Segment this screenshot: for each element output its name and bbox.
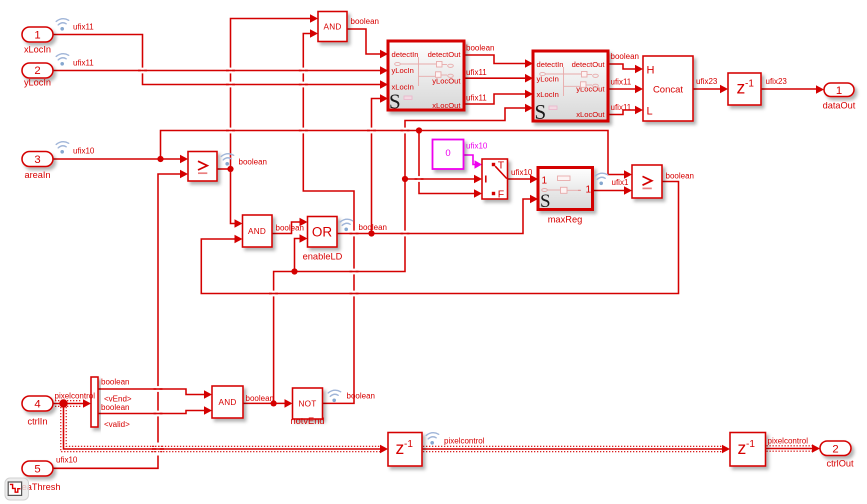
svg-text:detectIn: detectIn [537,60,564,69]
svg-text:1: 1 [34,30,40,42]
outport 1 dataOut [824,83,854,97]
svg-text:-1: -1 [404,439,413,450]
svg-text:<valid>: <valid> [104,420,130,429]
logic gate NOT notvEnd [293,388,323,419]
svg-text:5: 5 [34,464,40,476]
svg-text:Concat: Concat [653,85,683,96]
logic gate OR enableLD [308,217,338,248]
svg-text:boolean: boolean [101,403,129,412]
wire delay Z1 to dataOut port [761,85,824,94]
svg-text:boolean: boolean [246,394,274,403]
node areaIn branch junction [157,156,163,162]
svg-text:ufix23: ufix23 [696,77,718,86]
svg-text:yLocIn: yLocIn [392,66,414,75]
svg-text:notvEnd: notvEnd [290,416,324,426]
comparator GE1 area greater-equal areaThresh [188,152,217,182]
svg-text:boolean: boolean [666,172,694,181]
wire ctrlIn bus branch down to delay Z2 [61,404,388,454]
wifi badge enableLD signal [340,219,353,231]
wire areaIn branch to comparator GE2 top input [161,131,633,179]
node GE1 output junction [227,166,233,172]
svg-text:ufix10: ufix10 [56,456,78,465]
delay Z2 [388,433,422,467]
svg-text:yLocIn: yLocIn [537,75,559,84]
svg-text:boolean: boolean [611,52,639,61]
svg-text:z: z [738,438,747,458]
delay Z3 [730,433,766,467]
wire pixelcontrol bus delay Z3 to ctrlOut port [766,444,821,453]
bus selector [91,377,98,427]
wire AND3 branch to switch control input [405,175,482,184]
node ctrlIn bus junction [59,399,67,407]
subsystem maxReg [538,168,593,210]
delay Z1 [728,73,761,105]
wire switch output to maxReg input [508,175,539,184]
svg-text:boolean: boolean [347,392,375,401]
svg-text:ufix23: ufix23 [766,77,788,86]
wire subsystem2 detectOut to Concat H input [608,64,643,73]
wire areaThresh port5 to comparator GE1 bottom input [53,170,188,469]
wire constant 0 to switch T input [464,155,483,169]
maxReg content preview [542,176,581,193]
sample time legend badge [5,478,29,500]
svg-text:-1: -1 [746,439,755,450]
svg-text:OR: OR [312,225,333,240]
svg-text:boolean: boolean [351,17,379,26]
svg-text:boolean: boolean [276,224,304,233]
svg-text:pixelcontrol: pixelcontrol [55,392,96,401]
wire areaIn port3 to comparator GE1 top input [53,155,188,164]
svg-text:maxReg: maxReg [548,215,583,225]
svg-text:S: S [389,90,401,114]
svg-text:H: H [647,64,655,76]
svg-text:AND: AND [324,23,342,32]
wire bus selector valid output to AND3 bottom input [98,406,212,415]
subsystem2 content preview [540,67,599,110]
wire AND2 output to OR top input [272,218,308,234]
wire subsystem2 xLocOut to Concat L input [608,106,643,115]
wire NOT notvEnd output to AND1 bottom input [303,29,354,403]
wifi badge port3 signal [56,142,68,154]
wire comparator GE1 output net [217,168,231,170]
wifi badge port1 signal [56,19,68,31]
wire bus selector vEnd output to AND3 top input [98,389,212,399]
wire xLocIn port1 to subsystem1 xLocIn pin [53,35,388,89]
svg-text:xLocOut: xLocOut [576,110,605,119]
svg-text:ufix10: ufix10 [511,168,533,177]
svg-text:2: 2 [34,65,40,77]
svg-text:ufix11: ufix11 [73,59,94,68]
node areaIn line junction feeding switch F input [416,127,422,133]
svg-text:pixelcontrol: pixelcontrol [768,437,809,446]
svg-text:ufix1: ufix1 [612,178,629,187]
svg-text:4: 4 [34,399,40,411]
svg-text:ufix11: ufix11 [611,78,632,87]
node AND3 branch junction to OR bottom input [291,268,297,274]
wifi badge GE1 output signal [221,154,234,166]
wire AND1 output to subsystem1 detectIn pin [347,29,388,58]
svg-text:detectOut: detectOut [428,50,462,59]
svg-text:ufix11: ufix11 [73,23,94,32]
svg-text:detectOut: detectOut [572,60,606,69]
svg-text:S: S [535,100,547,124]
svg-text:ufix11: ufix11 [611,103,632,112]
svg-text:NOT: NOT [299,400,317,409]
wire Concat output to delay Z1 [693,85,728,94]
node AND3 branch junction to switch control [402,176,408,182]
svg-text:1: 1 [542,176,548,187]
wire ctrlIn pixelcontrol bus to bus selector [53,399,91,408]
node AND3 output junction [271,400,277,406]
wifi badge maxReg output signal [595,173,608,185]
svg-text:1: 1 [836,85,842,97]
svg-text:boolean: boolean [466,44,494,53]
svg-text:2: 2 [832,443,838,455]
logic gate AND3 [212,386,243,418]
svg-text:dataOut: dataOut [823,100,856,110]
wire crossing hop gaps [138,68,424,456]
svg-text:areaIn: areaIn [24,170,50,180]
svg-text:S: S [540,191,551,212]
inport 2 yLocIn [22,63,53,78]
wire AND3 branch to OR bottom input [295,234,308,271]
svg-text:1: 1 [585,185,591,196]
svg-text:L: L [647,106,653,118]
wire subsystem1 yLocOut to subsystem2 yLocIn [463,74,533,83]
comparator GE2 area greater-equal maxReg [632,165,662,198]
svg-text:ctrlIn: ctrlIn [28,417,48,427]
wire GE1 output up to AND1 top input [231,14,319,169]
wifi badge port2 signal [56,54,68,66]
svg-text:0: 0 [445,148,450,159]
svg-text:xLocIn: xLocIn [537,90,559,99]
switch block [482,159,508,199]
wifi badge Z2 output signal [426,433,439,445]
subsystem1 content preview [395,57,454,100]
inport 3 areaIn [22,152,53,167]
svg-text:xLocOut: xLocOut [432,101,461,110]
svg-text:3: 3 [34,154,40,166]
svg-text:enableLD: enableLD [303,252,343,262]
svg-text:-1: -1 [745,78,754,89]
wire pixelcontrol bus delay Z2 to delay Z3 [422,445,730,454]
wire GE1 output down to AND2 top input [231,169,243,228]
subsystem2 S detect xLoc yLoc [533,51,608,121]
svg-text:z: z [396,438,405,458]
svg-text:AND: AND [219,398,237,407]
wire subsystem2 yLocOut to Concat middle input [608,85,643,94]
constant 0 [433,140,464,170]
wire areaIn branch to switch F input [419,131,482,198]
logic gate AND1 [318,12,347,42]
svg-text:boolean: boolean [101,378,129,387]
Concat block [643,56,693,121]
svg-text:detectIn: detectIn [392,50,419,59]
outport 2 ctrlOut [820,441,851,456]
wire yLocIn port2 to subsystem1 yLocIn pin [53,66,388,75]
inport 1 xLocIn [22,27,53,42]
svg-text:ufix10: ufix10 [73,147,95,156]
node enableLD output junction [368,230,374,236]
wire subsystem1 detectOut to subsystem2 detectIn [463,55,533,68]
wire subsystem1 xLocOut to subsystem2 xLocIn [463,90,533,104]
svg-text:F: F [498,188,504,200]
wire AND3 output to NOT input [243,399,293,408]
inport 4 ctrlIn [22,396,53,411]
inport 5 areaThresh [22,461,53,476]
svg-text:yLocIn: yLocIn [24,78,51,88]
svg-text:z: z [737,77,746,97]
svg-text:ufix11: ufix11 [466,68,487,77]
svg-text:AND: AND [248,227,266,236]
svg-text:boolean: boolean [239,158,267,167]
svg-text:ctrlOut: ctrlOut [826,459,854,469]
wifi badge notvEnd output signal [328,390,341,402]
wire AND3 output branch to subsystem2 S port [274,104,533,404]
wire OR enableLD output to maxReg S port [337,199,531,234]
wire comparator GE2 output to AND2 bottom input [201,182,678,294]
svg-text:ufix10: ufix10 [466,142,488,151]
subsystem1 S detect xLoc yLoc [388,41,464,110]
svg-text:ufix11: ufix11 [466,94,487,103]
svg-text:yLocOut: yLocOut [432,77,461,86]
svg-text:pixelcontrol: pixelcontrol [444,436,485,445]
svg-text:xLocIn: xLocIn [24,45,51,55]
wire enableLD branch up to subsystem1 S port [372,94,389,233]
wire maxReg output to comparator GE2 bottom input [593,186,633,195]
logic gate AND2 [243,215,273,247]
svg-text:boolean: boolean [359,223,387,232]
